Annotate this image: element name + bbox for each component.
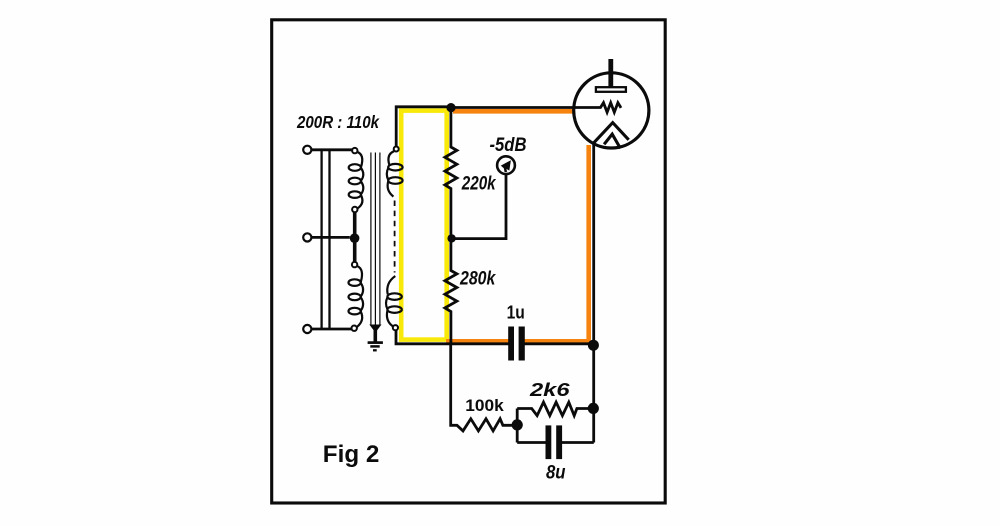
svg-text:8u: 8u (546, 462, 566, 483)
svg-text:200R : 110k: 200R : 110k (296, 112, 380, 132)
svg-text:-5dB: -5dB (490, 135, 527, 156)
svg-text:Fig 2: Fig 2 (323, 441, 380, 468)
svg-text:1u: 1u (507, 301, 525, 322)
svg-text:220k: 220k (461, 173, 497, 194)
svg-text:280k: 280k (459, 268, 496, 289)
svg-text:100k: 100k (465, 397, 504, 415)
svg-text:2k6: 2k6 (529, 379, 571, 400)
